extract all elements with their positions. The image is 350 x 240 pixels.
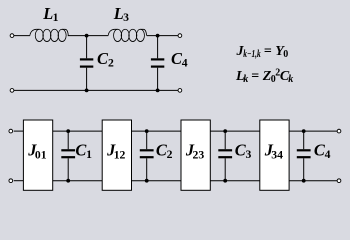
inductor L3 [108, 29, 146, 41]
admittance inverter J23 [181, 120, 210, 190]
capacitor C2 (bottom circuit, shunt) [140, 131, 154, 181]
node: C2 upper rail junction [145, 129, 149, 133]
node B (junction L3-C4, top) [156, 34, 160, 38]
node: C4 upper rail junction [302, 129, 306, 133]
terminal: bottom circuit input (upper) [9, 129, 13, 133]
svg-text:3: 3 [246, 148, 252, 161]
wire: upper rail J12 to J23 [132, 130, 182, 132]
equation Jk-1,k = Y0 [236, 44, 289, 60]
label C4 [314, 141, 331, 162]
admittance inverter J34 [260, 120, 289, 190]
svg-text:2: 2 [167, 148, 173, 161]
svg-text:4: 4 [182, 56, 188, 69]
capacitor C3 (bottom circuit, shunt) [218, 131, 232, 181]
svg-text:12: 12 [114, 148, 126, 161]
label J34 [264, 140, 283, 161]
node: C1 lower rail junction [66, 179, 70, 183]
svg-text:L: L [42, 4, 53, 23]
wire: upper rail J23 to J34 [210, 130, 259, 132]
label C3 [235, 141, 252, 162]
inductor L1 [30, 29, 68, 41]
terminal: top circuit input (upper) [10, 34, 14, 38]
terminal: top circuit output (upper) [178, 34, 182, 38]
label C2 [156, 141, 173, 162]
node: C2 to bottom rail junction [85, 89, 89, 93]
label J23 [185, 140, 204, 161]
wire: left input (upper) to J01 [14, 130, 24, 132]
node: C1 upper rail junction [66, 129, 70, 133]
label L1 [42, 4, 58, 24]
wire: bottom rail of top circuit [14, 89, 178, 91]
wire: lower rail J34 to right output terminal [289, 180, 337, 182]
svg-text:4: 4 [325, 148, 331, 161]
svg-text:01: 01 [35, 148, 47, 161]
node: C3 lower rail junction [223, 179, 227, 183]
svg-text:34: 34 [271, 148, 283, 161]
svg-text:23: 23 [193, 148, 205, 161]
wire: left input (lower) to J01 [14, 180, 24, 182]
capacitor C4 (top circuit, shunt at node B) [151, 36, 164, 91]
terminal: bottom circuit output (upper) [337, 129, 341, 133]
svg-text:0: 0 [283, 49, 288, 60]
wire: lower rail J12 to J23 [132, 180, 182, 182]
wire: top rail, L3 to right terminal through node B [147, 35, 178, 37]
svg-text:=: = [251, 69, 259, 84]
svg-text:L: L [113, 4, 124, 23]
label J01 [27, 140, 46, 161]
node: C2 lower rail junction [145, 179, 149, 183]
wire: upper rail J34 to right output terminal [289, 130, 337, 132]
node: C4 to bottom rail junction [156, 89, 160, 93]
admittance inverter J12 [102, 120, 131, 190]
node: C4 lower rail junction [302, 179, 306, 183]
capacitor C4 (bottom circuit, shunt) [297, 131, 311, 181]
svg-text:k: k [243, 74, 248, 85]
terminal: top circuit output (lower) [178, 89, 182, 93]
svg-text:1: 1 [53, 11, 59, 24]
label L3 [113, 4, 129, 24]
admittance inverter J01 [23, 120, 52, 190]
svg-text:1: 1 [86, 148, 92, 161]
wire: top rail, left terminal to L1 [14, 35, 30, 37]
label J12 [106, 140, 125, 161]
wire: lower rail J01 to J12 [53, 180, 102, 182]
svg-text:2: 2 [108, 56, 114, 69]
svg-text:k−1,k: k−1,k [243, 49, 260, 60]
wire: lower rail J23 to J34 [210, 180, 259, 182]
capacitor C1 (bottom circuit, shunt) [61, 131, 75, 181]
equation Lk = Z0^2 Ck [235, 67, 293, 85]
label C2 [97, 49, 114, 70]
svg-text:k: k [288, 74, 293, 85]
wire: upper rail J01 to J12 [53, 130, 102, 132]
terminal: top circuit input (lower) [10, 89, 14, 93]
node A (junction L1-L3-C2, top) [85, 34, 89, 38]
wire: top rail, L1 to L3 through node A [68, 35, 108, 37]
terminal: bottom circuit input (lower) [9, 179, 13, 183]
label C1 [75, 141, 92, 162]
svg-text:3: 3 [123, 11, 129, 24]
svg-text:=: = [264, 44, 272, 59]
capacitor C2 (top circuit, shunt at node A) [80, 36, 93, 91]
terminal: bottom circuit output (lower) [337, 179, 341, 183]
node: C3 upper rail junction [223, 129, 227, 133]
label C4 [171, 49, 188, 70]
